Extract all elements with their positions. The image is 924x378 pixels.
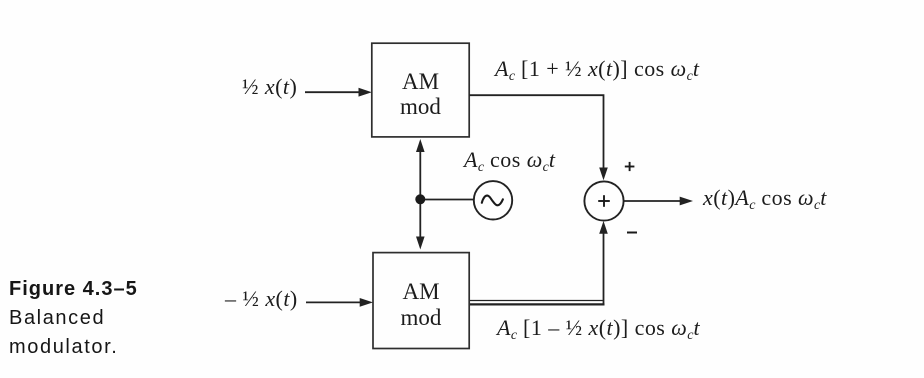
summing junction [584, 181, 623, 220]
wire junction to both modulators (double arrow) [416, 139, 425, 250]
label Ac cos wct (oscillator) [464, 149, 555, 171]
wire top modulator output to summer [469, 95, 608, 180]
text AM mod (bottom block) [373, 279, 469, 332]
wire summer output arrow [624, 197, 693, 206]
block AM modulator (top) [372, 43, 469, 137]
caption Figure 4.3-5 Balanced modulator. [9, 275, 138, 363]
text AM mod (top block) [372, 69, 469, 119]
wire bottom input arrow [306, 298, 373, 307]
label + (summer top input sign) [625, 162, 635, 171]
block AM modulator (bottom) [373, 253, 469, 349]
label Ac [1 - 1/2 x(t)] cos wct (bottom output) [497, 317, 700, 339]
node junction dot [415, 194, 425, 204]
label Ac [1 + 1/2 x(t)] cos wct (top output) [495, 58, 699, 80]
wire top input arrow [305, 88, 372, 97]
label -1/2 x(t) (bottom input) [225, 288, 298, 310]
label x(t)Ac cos wct (final output) [703, 187, 827, 209]
wire oscillator to junction node [421, 199, 474, 201]
oscillator source [474, 181, 512, 219]
label 1/2 x(t) (top input) [242, 76, 297, 98]
wire bottom modulator output to summer [470, 221, 608, 304]
label - (summer bottom input sign) [627, 232, 637, 234]
